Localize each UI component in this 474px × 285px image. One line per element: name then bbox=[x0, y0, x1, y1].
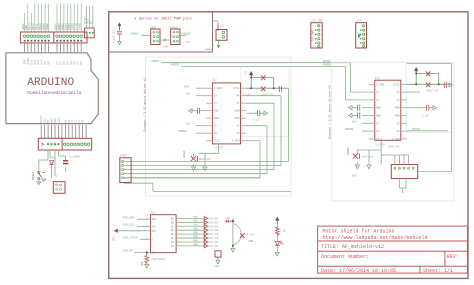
svg-text:IC1: IC1 bbox=[151, 211, 156, 214]
capacitor 100uF bottom section2 bbox=[353, 154, 360, 159]
frame border bbox=[109, 12, 468, 279]
IC 595 pin names bbox=[152, 217, 175, 254]
svg-text:0.1uF: 0.1uF bbox=[253, 119, 261, 122]
svg-text:M2A: M2A bbox=[193, 220, 198, 223]
+5V arrow section1 caps bbox=[250, 72, 253, 78]
IC2 L293D box bbox=[375, 80, 401, 140]
capacitor X reset bbox=[240, 233, 244, 238]
ground reset cluster bbox=[231, 247, 235, 253]
wire into IC2 pin5 bbox=[362, 122, 369, 124]
svg-text:100uF/16V: 100uF/16V bbox=[361, 156, 374, 159]
svg-text:DCM: DCM bbox=[184, 86, 189, 89]
JP2 pads bbox=[363, 25, 365, 48]
section2 inner module box bbox=[406, 62, 454, 132]
svg-text:RESET: RESET bbox=[32, 171, 35, 180]
svg-text:4Y: 4Y bbox=[236, 102, 240, 105]
capacitor C1 DualPWM bbox=[63, 161, 68, 164]
JP7 pads bbox=[222, 31, 225, 38]
aux 3pin header pads bbox=[86, 32, 94, 34]
top header connector box bbox=[20, 32, 87, 43]
595 output arrows bbox=[204, 217, 207, 248]
svg-text:VCC2: VCC2 bbox=[376, 138, 383, 141]
wire vertical reset cluster bbox=[232, 219, 234, 247]
svg-text:4A: 4A bbox=[396, 91, 400, 94]
wire Dir into IC1 bbox=[196, 95, 206, 97]
JP6 below stubs bbox=[399, 179, 406, 193]
junction dots reset cluster bbox=[232, 220, 234, 247]
ground below 100uF bbox=[192, 167, 196, 171]
595 output wires bbox=[176, 218, 204, 246]
svg-text:QF: QF bbox=[171, 237, 174, 240]
capacitor right of IC2 bbox=[427, 105, 429, 111]
svg-text:TITLE: AF_mshield-v12: TITLE: AF_mshield-v12 bbox=[321, 244, 384, 250]
svg-text:1A: 1A bbox=[214, 95, 218, 98]
capacitor on IC2 left upper bbox=[358, 105, 360, 111]
ground below wire bbox=[203, 167, 207, 171]
svg-text:10K: 10K bbox=[141, 261, 144, 266]
capacitor C2 bbox=[215, 251, 221, 257]
svg-text:Date: 17/06/2014 10:10:05: Date: 17/06/2014 10:10:05 bbox=[321, 268, 396, 274]
svg-text:VCC: VCC bbox=[112, 236, 115, 241]
svg-text:REV:: REV: bbox=[447, 254, 459, 260]
capacitor X mid section2 bbox=[426, 83, 430, 88]
junction dot DIR_EN bbox=[146, 252, 148, 254]
wire IC1 bottom to cap bbox=[194, 144, 219, 167]
svg-text:3A: 3A bbox=[236, 132, 240, 135]
ground below JP7 bbox=[217, 45, 221, 49]
svg-text:SCK: SCK bbox=[152, 225, 157, 228]
svg-text:L293D: L293D bbox=[376, 144, 385, 147]
title block row divider 2 bbox=[318, 250, 468, 252]
svg-text:4.7uF/10V: 4.7uF/10V bbox=[113, 30, 116, 43]
capacitor on IC1 left bbox=[198, 108, 200, 114]
ground left of IC2 cap bbox=[349, 114, 358, 118]
polarized cap right section2 bbox=[444, 82, 446, 88]
wire PWM2A long bbox=[162, 62, 351, 64]
svg-text:1-2EN: 1-2EN bbox=[214, 87, 222, 90]
svg-text:3Y: 3Y bbox=[236, 125, 240, 128]
bottom header connector box bbox=[38, 138, 91, 150]
arduino board outline bbox=[6, 53, 98, 124]
svg-text:PWR: PWR bbox=[280, 243, 285, 246]
svg-text:EXT_PWR: EXT_PWR bbox=[311, 20, 323, 23]
SERVO2 pads bbox=[173, 31, 179, 42]
section1 module box bbox=[146, 57, 292, 196]
svg-text:DCM_M2A: DCM_M2A bbox=[209, 221, 219, 224]
svg-text:1A: 1A bbox=[376, 91, 380, 94]
svg-text:ARDUINO: ARDUINO bbox=[27, 77, 74, 89]
svg-text:GND: GND bbox=[395, 115, 400, 118]
svg-text:Snapper / 2 DC motor driver #1: Snapper / 2 DC motor driver #1 bbox=[142, 77, 146, 131]
capacitor on IC2 left bbox=[358, 113, 360, 119]
capacitor mid right of IC1 bbox=[258, 110, 260, 116]
svg-text:3-4EN: 3-4EN bbox=[232, 140, 240, 143]
svg-text:JP2: JP2 bbox=[357, 20, 362, 23]
svg-text:Document Number:: Document Number: bbox=[321, 254, 369, 260]
svg-text:VCC1: VCC1 bbox=[393, 83, 400, 86]
polarized cap right bbox=[279, 86, 281, 92]
EXT_PWR pads bbox=[318, 25, 320, 48]
ground right of IC2 cap bbox=[429, 106, 437, 110]
section2 module box bbox=[332, 62, 454, 201]
wire DIR_SER bbox=[137, 218, 151, 220]
svg-text:1.0K: 1.0K bbox=[280, 230, 286, 233]
wire into IC1 left pin6 bbox=[196, 132, 206, 134]
top header wire labels bbox=[22, 23, 82, 30]
svg-text:QA: QA bbox=[171, 217, 174, 220]
ground below C2 bbox=[216, 261, 220, 264]
wire into IC2 pin4b bbox=[362, 107, 369, 109]
capacitor 100uF bottom bbox=[191, 156, 198, 161]
IC1 L293D box bbox=[212, 83, 240, 144]
wire pwr led bbox=[276, 224, 278, 226]
svg-text:M3A: M3A bbox=[193, 216, 198, 219]
svg-text:M4A: M4A bbox=[193, 239, 198, 242]
svg-text:QH: QH bbox=[171, 245, 174, 248]
svg-text:DIR_SER: DIR_SER bbox=[123, 216, 135, 219]
svg-text:http://www.ladyada.net/make/ms: http://www.ladyada.net/make/mshield bbox=[323, 235, 428, 241]
svg-text:DualPWM: DualPWM bbox=[69, 155, 80, 159]
svg-text:1.1: 1.1 bbox=[206, 47, 211, 50]
wire IC2 bottom to cap section2 bbox=[357, 140, 381, 165]
wire JP1 bottom jog bbox=[124, 178, 291, 192]
svg-text:LED: LED bbox=[50, 157, 55, 160]
wire riser right section2 bbox=[407, 63, 452, 171]
wire C2 ground bbox=[217, 257, 219, 260]
wire top cap row section2 bbox=[407, 74, 452, 85]
wire IC1 pin right rows to bus bbox=[247, 96, 282, 141]
connector JP2 bbox=[356, 23, 367, 48]
svg-text:RCK: RCK bbox=[152, 230, 157, 233]
svg-text:DCMOT: DCMOT bbox=[120, 155, 128, 158]
terminal block JP6 bbox=[391, 165, 417, 179]
svg-text:VCC2: VCC2 bbox=[214, 140, 221, 143]
bottom pin name row inside board bbox=[40, 115, 84, 123]
title block row divider 1 bbox=[318, 240, 468, 242]
JP2 pins bbox=[360, 29, 362, 44]
svg-text:1Y: 1Y bbox=[214, 102, 218, 105]
svg-text:GND: GND bbox=[235, 110, 240, 113]
svg-text:1Y: 1Y bbox=[376, 99, 380, 102]
svg-text:4Y: 4Y bbox=[396, 99, 400, 102]
svg-text:DCM_M1A: DCM_M1A bbox=[209, 225, 219, 228]
VCC arrow left bbox=[115, 229, 151, 232]
IC2 pin names bbox=[376, 83, 400, 141]
ground below C7 bbox=[118, 42, 121, 45]
IC1 pin names bbox=[214, 87, 240, 143]
IC2 pin stubs left bbox=[369, 84, 375, 139]
svg-text:2Y: 2Y bbox=[376, 122, 380, 125]
EXT_PWR pins bbox=[315, 29, 317, 44]
svg-text:3-4EN: 3-4EN bbox=[392, 138, 400, 141]
svg-text:A5: A5 bbox=[82, 119, 85, 123]
svg-text:M1B: M1B bbox=[193, 228, 198, 231]
ground below reset bbox=[37, 179, 46, 185]
svg-text:DCM_M3A: DCM_M3A bbox=[209, 217, 219, 220]
svg-text:DCM_M4A: DCM_M4A bbox=[209, 241, 219, 244]
wire DIR_LATCH bbox=[140, 238, 151, 240]
svg-text:GND: GND bbox=[376, 115, 381, 118]
ground left of cap bbox=[189, 109, 198, 113]
svg-text:4.7uF: 4.7uF bbox=[247, 233, 255, 236]
JP1 pads bbox=[122, 160, 124, 178]
svg-text:1x2: 1x2 bbox=[220, 25, 225, 28]
IC1 pin stubs left bbox=[206, 88, 212, 141]
svg-text:2 Servos on 16bit PWM pins: 2 Servos on 16bit PWM pins bbox=[134, 17, 192, 22]
svg-text:IC2: IC2 bbox=[212, 79, 217, 82]
svg-text:QD: QD bbox=[171, 229, 174, 232]
capacitor X top bbox=[261, 75, 265, 80]
resistor horizontal reset cluster bbox=[225, 220, 233, 223]
svg-text:100uF: 100uF bbox=[183, 150, 186, 158]
svg-text:D0: D0 bbox=[80, 61, 83, 65]
wire SERVO2 to PWM1B bbox=[180, 34, 186, 36]
svg-text:+5V: +5V bbox=[244, 70, 247, 75]
connector EXT_PWR bbox=[311, 23, 322, 48]
capacitor X top section2 bbox=[426, 71, 430, 76]
section1 inner module box bbox=[241, 66, 289, 137]
JP2 arrow bbox=[358, 33, 361, 39]
+5V arrow section2 caps bbox=[415, 68, 418, 74]
top header JP digital wires bbox=[24, 4, 81, 33]
bottom pin stubs bbox=[41, 125, 86, 139]
aux 3pin header wires bbox=[87, 6, 93, 28]
wire PWM2A drop bbox=[346, 63, 369, 100]
ICSP box bbox=[53, 182, 65, 194]
svg-text:DIR_LATCH: DIR_LATCH bbox=[123, 237, 138, 240]
svg-text:M2B: M2B bbox=[193, 232, 198, 235]
IC1 74HC595 box bbox=[151, 215, 177, 253]
svg-text:SER: SER bbox=[152, 218, 157, 221]
reset net wire bbox=[39, 150, 66, 178]
ground left of IC2 cap upper bbox=[349, 106, 358, 110]
ground right section2 caps bbox=[449, 83, 453, 87]
wire cap to ground right bbox=[247, 111, 268, 115]
svg-text:DIR_EN: DIR_EN bbox=[123, 250, 133, 253]
svg-text:PWM2B: PWM2B bbox=[323, 64, 331, 67]
svg-text:2Y: 2Y bbox=[214, 125, 218, 128]
svg-text:M4B: M4B bbox=[193, 243, 198, 246]
svg-text:4A: 4A bbox=[236, 95, 240, 98]
svg-text:DCM_M4B: DCM_M4B bbox=[209, 245, 219, 248]
svg-text:Dir: Dir bbox=[186, 122, 191, 126]
svg-text:1/TX: 1/TX bbox=[74, 23, 78, 30]
svg-text:5V: 5V bbox=[90, 20, 93, 24]
wire into IC2 pin4 bbox=[362, 115, 369, 117]
svg-text:IC3: IC3 bbox=[375, 77, 380, 80]
svg-text:QG: QG bbox=[171, 241, 174, 244]
wires IC2 right pins bbox=[407, 92, 448, 131]
svg-text:PWM0A: PWM0A bbox=[179, 130, 187, 133]
svg-text:PWM8: PWM8 bbox=[46, 23, 49, 30]
wire GND label to JP7 bbox=[217, 23, 219, 32]
svg-text:GND: GND bbox=[248, 240, 253, 243]
top header pin stubs bbox=[24, 43, 81, 53]
svg-text:M3B: M3B bbox=[193, 235, 198, 238]
svg-text:100uF/16V: 100uF/16V bbox=[199, 158, 212, 161]
svg-text:Dir: Dir bbox=[186, 92, 191, 96]
bottom header pads bbox=[41, 143, 90, 145]
svg-text:G: G bbox=[152, 238, 154, 241]
svg-text:PWM2A: PWM2A bbox=[151, 60, 159, 63]
IC 595 pin numbers left bbox=[146, 216, 181, 253]
svg-text:Sheet: 1/1: Sheet: 1/1 bbox=[423, 268, 453, 274]
resistor R1 bbox=[145, 254, 149, 265]
bottom header connector divider bbox=[61, 138, 63, 150]
svg-text:3A: 3A bbox=[396, 130, 400, 133]
svg-text:PWM2B: PWM2B bbox=[171, 64, 179, 67]
svg-text:DIR_CLK: DIR_CLK bbox=[123, 224, 135, 227]
svg-text:PWM2A: PWM2A bbox=[323, 60, 331, 63]
svg-text:DCM_M3B: DCM_M3B bbox=[209, 237, 219, 240]
reset switch S1 bbox=[37, 172, 45, 180]
title block REV divider bbox=[444, 251, 446, 266]
aux 3pin header box bbox=[84, 28, 94, 38]
title block row divider 3 bbox=[318, 265, 468, 267]
svg-text:D8: D8 bbox=[48, 61, 51, 65]
svg-text:2A: 2A bbox=[214, 132, 218, 135]
ground below 100uF section2 bbox=[355, 165, 359, 169]
svg-text:100uF: 100uF bbox=[347, 147, 350, 155]
svg-text:100uF/+6V: 100uF/+6V bbox=[426, 89, 439, 92]
IC2 pin stubs right bbox=[401, 84, 407, 139]
wire JP7 to ground bbox=[218, 40, 220, 45]
svg-text:PWM0B: PWM0B bbox=[345, 128, 353, 131]
junction dots section1 caps bbox=[250, 77, 275, 90]
wire DIR_EN bbox=[134, 252, 151, 254]
IC1 pin stubs right bbox=[241, 88, 247, 141]
svg-text:VIN: VIN bbox=[58, 118, 61, 123]
svg-text:+5V: +5V bbox=[186, 41, 191, 44]
wire PWM2B long bbox=[182, 66, 346, 68]
wire cap to IC1 bbox=[200, 110, 207, 112]
ground below R1 bbox=[145, 265, 149, 269]
svg-text:10K: 10K bbox=[226, 217, 231, 220]
wire C7 to ground bbox=[119, 34, 121, 42]
capacitor C7 bbox=[117, 32, 122, 34]
svg-text:DuemilanoveDiecimila: DuemilanoveDiecimila bbox=[27, 90, 81, 96]
svg-text:QB: QB bbox=[171, 221, 174, 224]
wire into IC1 left pin5 bbox=[196, 125, 206, 127]
LED D1 bbox=[49, 161, 54, 165]
wire into IC1 left pin1 bbox=[196, 87, 206, 89]
terminal block JP1 bbox=[120, 158, 131, 183]
svg-text:QC: QC bbox=[171, 225, 174, 228]
wire into IC2 pin6 bbox=[362, 130, 369, 132]
JP6 pads bbox=[394, 167, 414, 169]
svg-text:GND: GND bbox=[395, 107, 400, 110]
vertical bus wires section1 bbox=[260, 88, 288, 178]
ground below wire section2 bbox=[367, 165, 371, 169]
svg-text:GND: GND bbox=[376, 107, 381, 110]
resistor pwr led bbox=[276, 226, 280, 237]
svg-text:DCM4B: DCM4B bbox=[412, 128, 420, 131]
wire between servo connectors bbox=[160, 39, 171, 41]
svg-text:VCC1: VCC1 bbox=[233, 87, 240, 90]
svg-text:GND: GND bbox=[164, 46, 169, 49]
JP6 riser wires bbox=[381, 155, 408, 165]
svg-text:Motor shield for Arduino: Motor shield for Arduino bbox=[323, 229, 395, 235]
top header connector divider bbox=[53, 32, 55, 43]
svg-text:PWM1B: PWM1B bbox=[182, 32, 190, 35]
svg-text:GND: GND bbox=[214, 110, 219, 113]
title block outline bbox=[318, 226, 468, 273]
svg-text:1-2EN: 1-2EN bbox=[376, 83, 384, 86]
title block Sheet divider bbox=[419, 266, 421, 273]
servo section box bbox=[109, 12, 213, 52]
wire DIR_CLK bbox=[137, 225, 151, 227]
svg-text:2A: 2A bbox=[376, 130, 380, 133]
svg-text:Snapper / 2 DC motor driver #2: Snapper / 2 DC motor driver #2 bbox=[328, 85, 332, 139]
595 output labels bbox=[193, 216, 218, 248]
wire LED to ground bbox=[276, 246, 278, 253]
svg-text:Dir: Dir bbox=[352, 119, 357, 123]
svg-text:EXT_PWR: EXT_PWR bbox=[311, 30, 314, 41]
terminal block JP1 wires bbox=[124, 161, 288, 177]
svg-text:DCM_M2B: DCM_M2B bbox=[209, 233, 219, 236]
svg-text:QE: QE bbox=[171, 233, 174, 236]
svg-text:L293D/16M: L293D/16M bbox=[387, 146, 400, 149]
+5V arrow pwr led bbox=[276, 217, 279, 224]
svg-text:GND: GND bbox=[235, 117, 240, 120]
LED PWR bbox=[275, 241, 282, 246]
svg-text:DCM_M1B: DCM_M1B bbox=[209, 229, 219, 232]
svg-text:GND: GND bbox=[352, 175, 357, 178]
wire top cap row bbox=[247, 78, 289, 89]
connector SER1 bbox=[151, 29, 160, 45]
svg-text:74HC595N: 74HC595N bbox=[151, 258, 165, 261]
+5V arrow above C7 bbox=[118, 23, 121, 30]
svg-text:PWM1A: PWM1A bbox=[131, 32, 139, 35]
top header pads bbox=[23, 35, 82, 42]
svg-text:0/RX: 0/RX bbox=[78, 23, 82, 30]
svg-text:M1A: M1A bbox=[193, 224, 198, 227]
connector JP7 GND bbox=[216, 30, 227, 41]
connector SERVO2 bbox=[171, 29, 180, 45]
arc wire reset cluster bbox=[233, 224, 241, 245]
top pin name row inside board bbox=[23, 58, 83, 65]
SER1 pads bbox=[153, 31, 159, 42]
ICSP pads bbox=[56, 184, 62, 190]
svg-text:GND: GND bbox=[214, 117, 219, 120]
svg-text:0.1uF: 0.1uF bbox=[422, 115, 430, 118]
svg-text:SCL: SCL bbox=[152, 252, 157, 255]
svg-text:GND: GND bbox=[215, 265, 220, 268]
wire PWM1A to SER1 bbox=[142, 34, 151, 36]
capacitor X mid bbox=[261, 87, 265, 92]
ground pwr led bbox=[275, 253, 279, 257]
junction dots section2 caps bbox=[415, 73, 440, 86]
svg-text:3Y: 3Y bbox=[396, 122, 400, 125]
servo box corner tick bbox=[205, 48, 213, 50]
